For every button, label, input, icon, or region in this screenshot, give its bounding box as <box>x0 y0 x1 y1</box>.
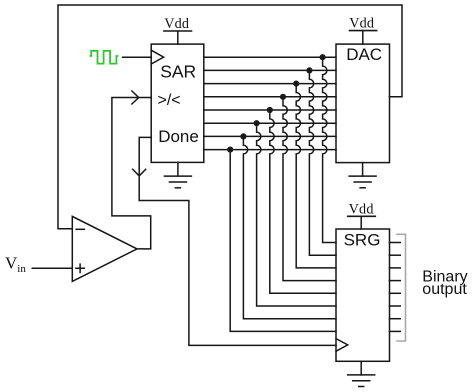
node junction dot bit 7 tap <box>306 67 312 73</box>
svg-text:Vdd: Vdd <box>349 16 374 32</box>
wire bit 8 vertical down to SRG input, hops over lower bus lines <box>323 57 336 242</box>
node junction dot bit 2 tap <box>240 133 246 139</box>
wire Vin to comparator noninverting input <box>32 267 72 269</box>
wire SRG output stub 6 <box>390 305 401 307</box>
SRG clock input chevron <box>336 339 348 352</box>
power Vdd symbol above SAR <box>164 16 192 44</box>
wire SRG output stub 2 <box>390 254 401 256</box>
wire bit 3 vertical down to SRG input, hops over lower bus lines <box>257 123 336 306</box>
wire SRG output stub 4 <box>390 280 401 282</box>
wire bus line bit 4 from SAR to DAC <box>204 109 336 111</box>
ground symbol below SRG <box>348 361 375 386</box>
clock source square-wave symbol (green) <box>91 51 118 64</box>
wire bit 2 vertical down to SRG input, hops over lower bus lines <box>243 136 336 318</box>
wire bus line bit 3 from SAR to DAC <box>204 122 336 124</box>
svg-text:output: output <box>422 281 467 298</box>
svg-text:SRG: SRG <box>344 230 381 249</box>
wire bus line bit 5 from SAR to DAC <box>204 96 336 98</box>
node junction dot bit 1 tap <box>227 147 233 153</box>
ground symbol below DAC <box>349 163 376 188</box>
wire bus line bit 1 from SAR to DAC <box>204 149 336 151</box>
wire bus line bit 2 from SAR to DAC <box>204 135 336 137</box>
SRG block U3 <box>336 229 390 361</box>
wire SRG output stub 7 <box>390 318 401 320</box>
arrowhead into SAR comparator input <box>132 91 139 104</box>
SAR clock input chevron <box>151 50 163 64</box>
svg-text:Vdd: Vdd <box>349 202 374 218</box>
wire bus line bit 6 from SAR to DAC <box>204 83 336 85</box>
bracket for binary output bits <box>397 234 406 341</box>
svg-text:DAC: DAC <box>346 45 382 64</box>
node junction dot bit 5 tap <box>280 94 286 100</box>
wire SRG output stub 1 <box>390 242 401 244</box>
arrowhead on Done wire pointing down <box>133 169 146 176</box>
wire bit 6 vertical down to SRG input, hops over lower bus lines <box>296 84 336 268</box>
wire bit 5 vertical down to SRG input, hops over lower bus lines <box>283 97 336 281</box>
wire Done output down, across and down to SRG clock input <box>139 137 336 345</box>
power Vdd symbol above DAC <box>349 16 377 44</box>
label noninverting input plus <box>76 264 84 272</box>
node junction dot bit 3 tap <box>254 120 260 126</box>
wire SRG output stub 5 <box>390 292 401 294</box>
power Vdd symbol above SRG <box>348 202 376 229</box>
ground symbol below SAR <box>164 162 191 187</box>
svg-text:Done: Done <box>158 127 199 146</box>
wire bit 4 vertical down to SRG input, hops over lower bus lines <box>270 110 336 293</box>
node junction dot bit 6 tap <box>293 81 299 87</box>
wire bit 7 vertical down to SRG input, hops over lower bus lines <box>309 70 336 255</box>
wire feedback loop: DAC output up over the top and down the left to comparator inverting input <box>58 5 402 229</box>
DAC block U2 <box>336 44 390 163</box>
wire SRG output stub 8 <box>390 330 401 332</box>
wire SRG output stub 3 <box>390 267 401 269</box>
wire bus line bit 8 from SAR to DAC <box>204 56 336 58</box>
op-amp comparator A1 <box>72 216 137 281</box>
label inverting input minus <box>76 228 84 230</box>
svg-text:SAR: SAR <box>160 61 196 81</box>
SAR block U1 <box>151 44 204 162</box>
wire clock source to SAR clock input <box>123 56 152 58</box>
node junction dot bit 4 tap <box>267 107 273 113</box>
wire bus line bit 7 from SAR to DAC <box>204 69 336 71</box>
svg-text:Vin: Vin <box>5 254 26 276</box>
node junction dot bit 8 tap <box>320 54 326 60</box>
wire bit 1 vertical down to SRG input, hops over lower bus lines <box>230 150 336 332</box>
svg-text:>/<: >/< <box>158 92 181 109</box>
wire comparator output up and left to SAR comparator input <box>112 98 151 249</box>
svg-text:Vdd: Vdd <box>164 16 189 32</box>
